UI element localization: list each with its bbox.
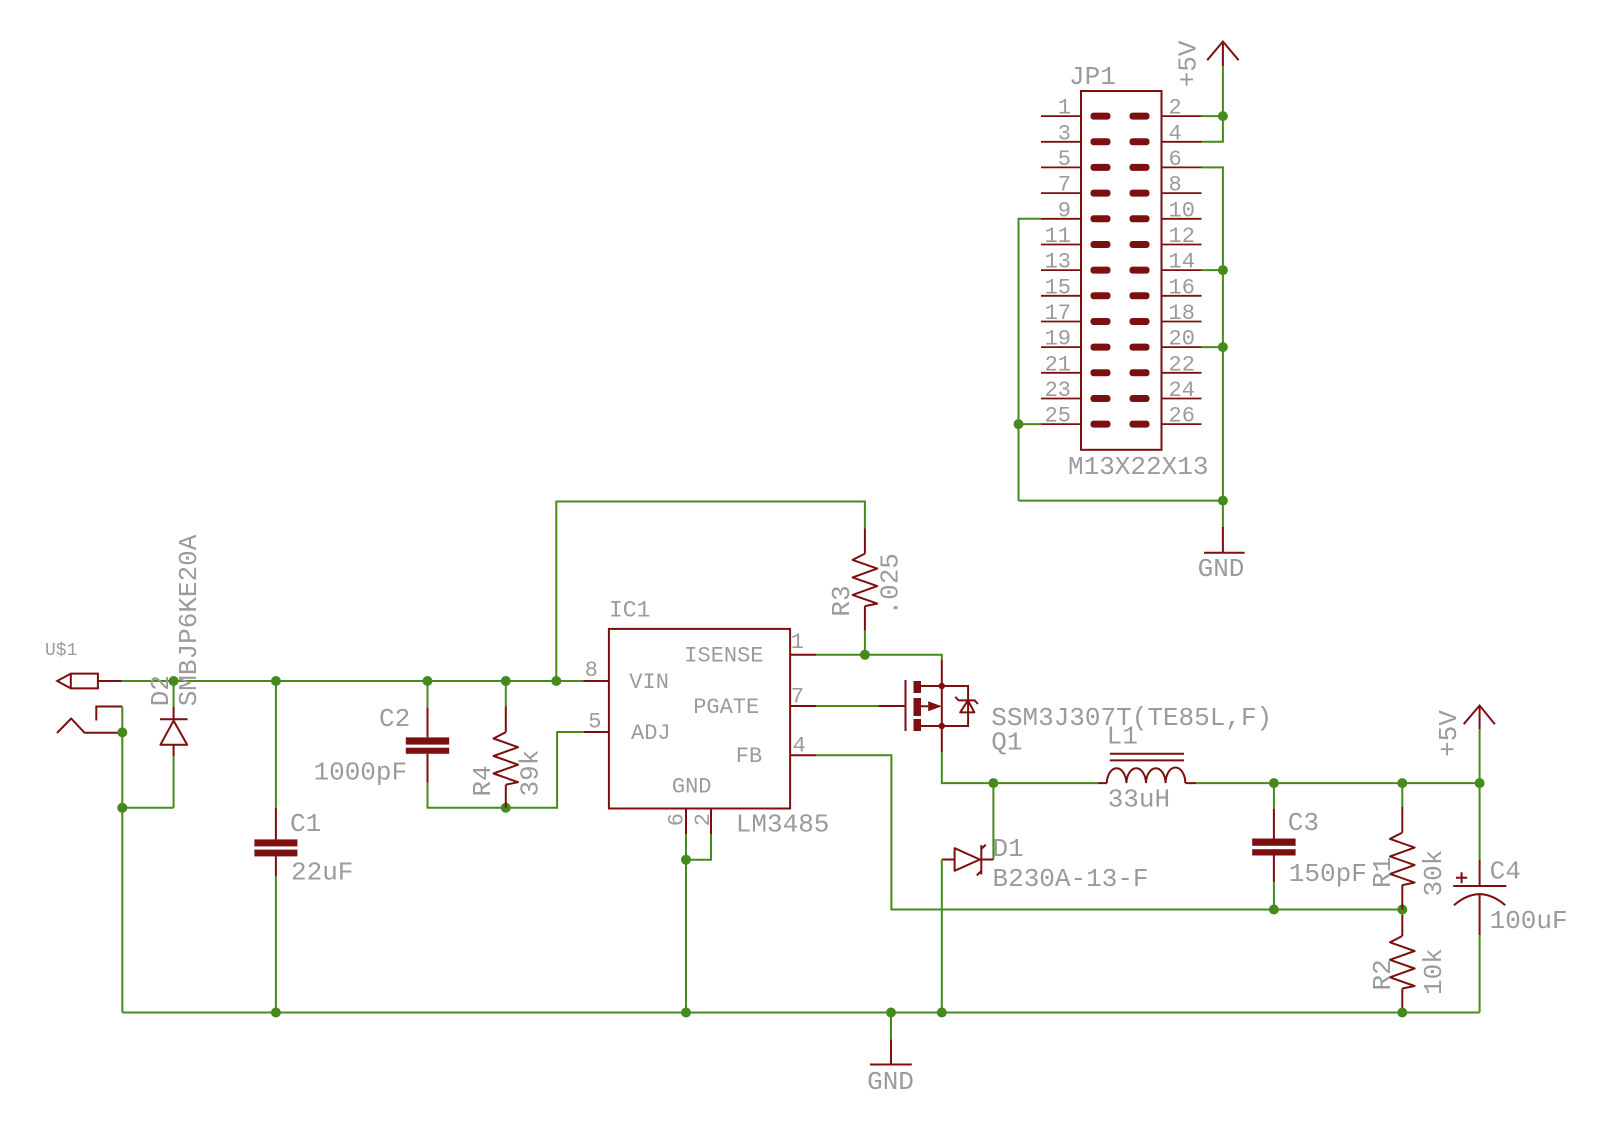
svg-text:11: 11 (1045, 224, 1071, 249)
U$1 sleeve bracket (96, 707, 122, 721)
capacitor C3 (1252, 809, 1295, 883)
junction IC1 GND pins (681, 855, 691, 865)
wire JP1 pin4 up to +5V node (1202, 116, 1223, 142)
IC1 pin 2 stub (710, 809, 712, 835)
junction VIN/D2 (169, 676, 179, 686)
wire IC1 pin2 to pin6 (686, 834, 711, 860)
inductor L1 (1098, 754, 1196, 783)
resistor R2 (1390, 915, 1415, 1013)
junction pin25 (1014, 419, 1024, 429)
JP1 pin 9 (1041, 198, 1111, 223)
JP1 pin 13 (1041, 250, 1111, 275)
JP1 pin 4 (1130, 121, 1202, 146)
svg-text:2: 2 (1169, 96, 1182, 121)
svg-text:1: 1 (791, 630, 804, 655)
svg-text:39k: 39k (516, 750, 546, 797)
svg-text:IC1: IC1 (609, 598, 650, 624)
wire VIN to R3 top (over IC1) (556, 502, 865, 682)
svg-text:D2: D2 (146, 675, 176, 706)
connector U$1 center-pin symbol (57, 674, 98, 689)
diode D2 (TVS) (160, 707, 188, 757)
svg-text:C4: C4 (1490, 857, 1521, 887)
svg-text:5: 5 (588, 710, 601, 735)
junction pin20 (1218, 342, 1228, 352)
wire Q1 drain to switch node (942, 752, 1098, 783)
svg-text:8: 8 (1169, 173, 1182, 198)
svg-text:2: 2 (691, 813, 716, 826)
wire C2 top (427, 681, 429, 708)
svg-text:30k: 30k (1419, 850, 1449, 897)
JP1 pin 10 (1130, 198, 1202, 223)
JP1 pin 1 (1041, 96, 1111, 121)
wire R2 top (1401, 910, 1403, 915)
wire ISENSE to Q1 source (816, 655, 942, 660)
junction JP1 GND node (1218, 496, 1228, 506)
svg-text:JP1: JP1 (1069, 62, 1116, 92)
wire C4 top (1479, 783, 1481, 860)
svg-text:D1: D1 (993, 834, 1024, 864)
wire GND bottom rail (122, 1012, 1479, 1014)
supply symbol +5V (right) (1464, 706, 1495, 730)
ground symbol (bottom) (890, 1039, 892, 1064)
ground symbol (JP1) (1222, 527, 1224, 553)
wire R4 top (505, 681, 507, 706)
IC1 pin 5 ADJ stub (584, 731, 609, 733)
JP1 pin 3 (1041, 121, 1111, 146)
svg-text:C1: C1 (290, 809, 321, 839)
svg-text:U$1: U$1 (45, 641, 77, 661)
IC1 pin 4 FB stub (790, 754, 816, 756)
svg-text:+5V: +5V (1174, 40, 1204, 87)
svg-text:19: 19 (1045, 327, 1071, 352)
IC1 pin 6 stub (685, 809, 687, 835)
junction out/C3 (1269, 778, 1279, 788)
wire GND to D2 anode (122, 807, 173, 809)
svg-text:100uF: 100uF (1490, 906, 1568, 936)
junction R4 bottom (501, 803, 511, 813)
junction VIN/C2 (423, 676, 433, 686)
capacitor C2 (406, 708, 449, 783)
svg-text:R2: R2 (1368, 959, 1398, 990)
wire R1 top (1401, 783, 1403, 807)
JP1 pin 6 (1130, 147, 1202, 172)
svg-text:1: 1 (1058, 96, 1071, 121)
svg-text:ADJ: ADJ (631, 721, 671, 746)
svg-text:Q1: Q1 (991, 728, 1022, 758)
U$1 sleeve spring contact (57, 719, 120, 734)
junction VIN/C1 (271, 676, 281, 686)
U$1 center pin lead (98, 680, 122, 682)
junction out/R1 (1397, 778, 1407, 788)
wire JP1 pin20 (1202, 346, 1223, 348)
svg-text:5: 5 (1058, 147, 1071, 172)
svg-text:18: 18 (1169, 301, 1195, 326)
svg-text:8: 8 (585, 658, 598, 683)
JP1 pin 25 (1041, 404, 1111, 429)
wire JP1 pin2 to +5V node (1202, 115, 1223, 117)
svg-text:10: 10 (1169, 198, 1195, 223)
junction rail/GND symbol (886, 1008, 896, 1018)
svg-text:10k: 10k (1419, 948, 1449, 995)
svg-text:GND: GND (672, 774, 712, 799)
svg-text:GND: GND (1198, 554, 1245, 584)
resistor R1 (1390, 807, 1415, 910)
JP1 pin 17 (1041, 301, 1111, 326)
wire C1 bottom to GND rail (275, 876, 277, 1013)
svg-text:B230A-13-F: B230A-13-F (993, 864, 1149, 894)
wire JP1 pin6 down right GND rail (1202, 167, 1223, 500)
resistor R4 (494, 706, 519, 808)
svg-text:1000pF: 1000pF (314, 758, 408, 788)
wire R3 bottom to ISENSE node (864, 631, 866, 655)
svg-text:22uF: 22uF (291, 858, 353, 888)
wire JP1 pin14 (1202, 269, 1223, 271)
IC1 pin 7 PGATE stub (790, 705, 816, 707)
wire output rail +5V (1196, 782, 1479, 784)
JP1 pin 14 (1130, 250, 1202, 275)
wire U$1 sleeve down to GND rail (121, 707, 123, 1013)
svg-text:16: 16 (1169, 275, 1195, 300)
junction FB/C3 bottom (1269, 905, 1279, 915)
junction VIN/R4 (501, 676, 511, 686)
transistor Q1 (P-MOSFET) (879, 660, 978, 752)
connector JP1 box (1081, 91, 1162, 450)
svg-text:15: 15 (1045, 275, 1071, 300)
svg-text:21: 21 (1045, 352, 1071, 377)
svg-text:17: 17 (1045, 301, 1071, 326)
wire C2 bottom / R4 bottom to ADJ (428, 732, 584, 808)
JP1 pin 11 (1041, 224, 1111, 249)
svg-text:R3: R3 (827, 585, 857, 616)
wire JP1 pin25 (1019, 423, 1042, 425)
wire VIN main rail (122, 680, 584, 682)
junction GND/D2 branch (117, 803, 127, 813)
svg-text:SMBJP6KE20A: SMBJP6KE20A (174, 534, 204, 706)
wire +5V stem (green) (1222, 66, 1224, 116)
junction FB/R1/R2 (1397, 905, 1407, 915)
op-amp IC1 LM3485 box (609, 629, 790, 809)
wire +5V right stem (1479, 729, 1481, 783)
JP1 pin 12 (1130, 224, 1202, 249)
svg-text:LM3485: LM3485 (736, 810, 830, 840)
JP1 pin 7 (1041, 173, 1111, 198)
JP1 pin 8 (1130, 173, 1202, 198)
svg-text:ISENSE: ISENSE (684, 643, 763, 668)
junction ISENSE/R3 (860, 650, 870, 660)
svg-text:M13X22X13: M13X22X13 (1068, 452, 1208, 482)
JP1 pin 24 (1130, 378, 1202, 403)
junction JP1 +5V node (1218, 111, 1228, 121)
JP1 pin 2 (1130, 96, 1202, 121)
wire C1 top (275, 681, 277, 808)
JP1 pin 16 (1130, 275, 1202, 300)
svg-text:13: 13 (1045, 250, 1071, 275)
JP1 pin 21 (1041, 352, 1111, 377)
JP1 pin 22 (1130, 352, 1202, 377)
junction pin14 (1218, 265, 1228, 275)
svg-text:GND: GND (867, 1067, 914, 1097)
svg-text:33uH: 33uH (1108, 785, 1170, 815)
svg-text:4: 4 (1169, 121, 1182, 146)
svg-text:FB: FB (736, 744, 762, 769)
junction rail/R2 (1397, 1008, 1407, 1018)
wire D1 anode to GND rail (941, 860, 943, 1013)
wire C3 top (1273, 783, 1275, 809)
JP1 pin 19 (1041, 327, 1111, 352)
junction rail/C1 (271, 1008, 281, 1018)
JP1 pin 20 (1130, 327, 1202, 352)
wire C4 bottom to GND rail (1479, 935, 1481, 1012)
wire GND symbol stem (890, 1013, 892, 1040)
svg-text:150pF: 150pF (1289, 859, 1367, 889)
svg-text:14: 14 (1169, 250, 1195, 275)
wire JP1 GND stem (1222, 501, 1224, 527)
junction VIN/R3 riser (551, 676, 561, 686)
svg-text:C3: C3 (1288, 808, 1319, 838)
JP1 pin 15 (1041, 275, 1111, 300)
diode D2 anode wire (173, 756, 175, 808)
resistor R3 (853, 529, 878, 631)
wire D1 cathode riser (992, 783, 994, 859)
wire C3 bottom (1273, 882, 1275, 909)
svg-text:R4: R4 (468, 765, 498, 796)
svg-text:6: 6 (1169, 147, 1182, 172)
IC1 pin 8 VIN stub (584, 680, 609, 682)
svg-text:7: 7 (1058, 173, 1071, 198)
junction switch node / D1 (988, 778, 998, 788)
wire PGATE to Q1 gate (816, 705, 879, 707)
wire JP1 pin9 down left side (1019, 219, 1042, 501)
svg-text:12: 12 (1169, 224, 1195, 249)
wire FB to divider (816, 755, 1402, 909)
junction sleeve node (117, 727, 127, 737)
wire IC1 pin6 to GND rail (685, 834, 687, 1013)
svg-text:+5V: +5V (1434, 710, 1464, 757)
diode D2 cathode wire (173, 681, 175, 707)
svg-text:.025: .025 (876, 553, 906, 615)
svg-text:24: 24 (1169, 378, 1195, 403)
svg-text:9: 9 (1058, 198, 1071, 223)
svg-text:23: 23 (1045, 378, 1071, 403)
capacitor C4 (polarized) (1453, 860, 1506, 935)
svg-text:R1: R1 (1368, 857, 1398, 888)
supply symbol +5V (top) (1207, 42, 1238, 67)
junction rail/D1 anode (937, 1008, 947, 1018)
svg-text:20: 20 (1169, 327, 1195, 352)
svg-text:PGATE: PGATE (693, 695, 759, 720)
svg-text:L1: L1 (1107, 722, 1138, 752)
JP1 pin 23 (1041, 378, 1111, 403)
svg-text:22: 22 (1169, 352, 1195, 377)
JP1 pin 26 (1130, 404, 1202, 429)
junction rail/IC1 GND (681, 1008, 691, 1018)
diode D1 (schottky B230A) (942, 845, 994, 876)
svg-text:4: 4 (793, 734, 806, 759)
capacitor C1 (254, 808, 297, 876)
JP1 pin 18 (1130, 301, 1202, 326)
svg-text:7: 7 (791, 685, 804, 710)
svg-text:3: 3 (1058, 121, 1071, 146)
JP1 pin 5 (1041, 147, 1111, 172)
wire JP1 bottom GND connecting run (1019, 500, 1223, 502)
junction out/C4 (1475, 778, 1485, 788)
svg-text:26: 26 (1169, 404, 1195, 429)
svg-text:C2: C2 (379, 704, 410, 734)
svg-text:VIN: VIN (629, 670, 669, 695)
svg-text:6: 6 (665, 813, 690, 826)
IC1 pin 1 ISENSE stub (790, 654, 816, 656)
svg-text:25: 25 (1045, 404, 1071, 429)
